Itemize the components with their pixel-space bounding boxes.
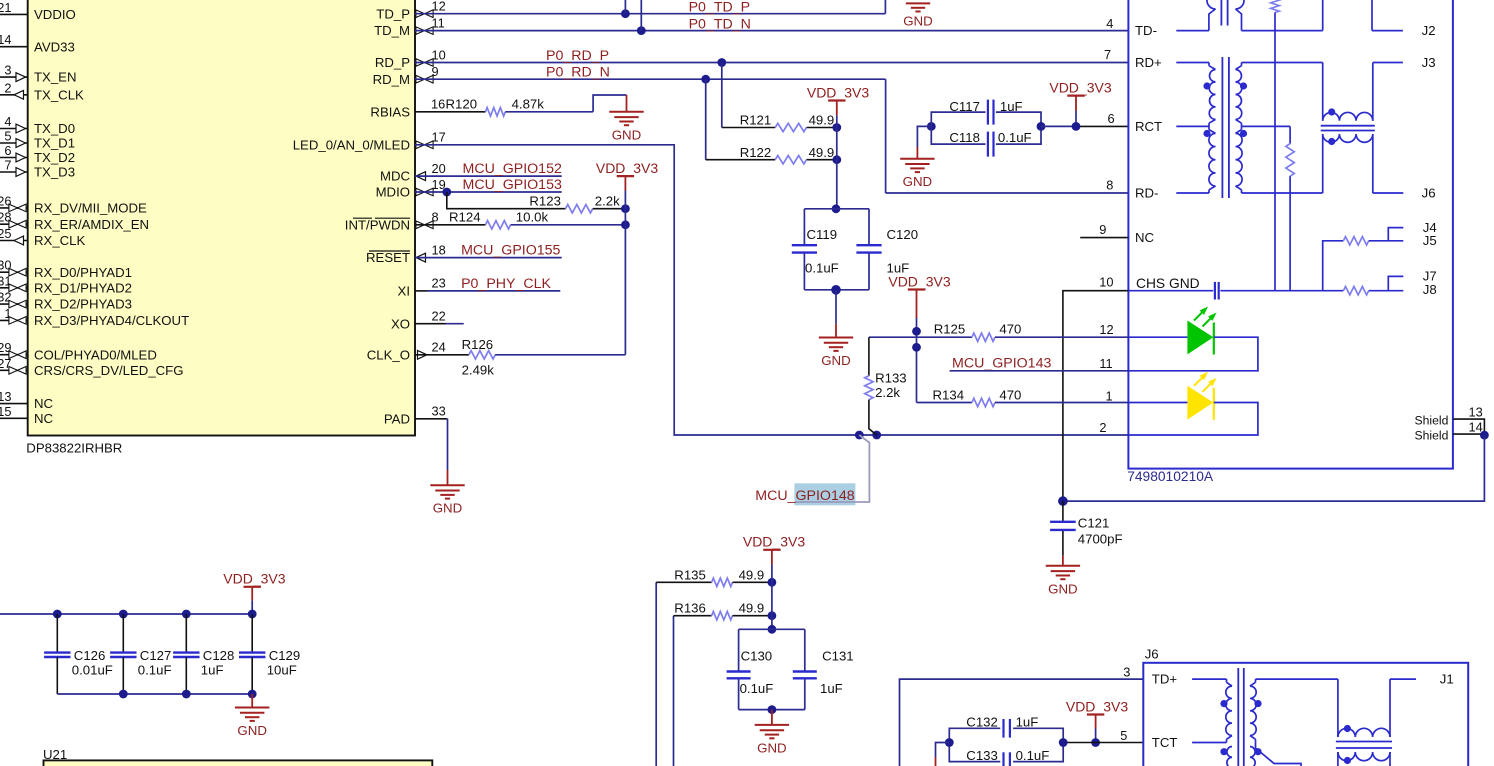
capacitor bank C117/C118 left node (927, 122, 936, 131)
svg-text:C128: C128 (203, 648, 235, 663)
svg-text:22: 22 (432, 309, 446, 324)
transformer J6 left winding upper (1226, 679, 1228, 682)
node MDIO junction (442, 188, 451, 197)
wire stem of RBIAS ground (626, 95, 628, 112)
IC left pin 29 COL/PHYAD0/MLED (0, 354, 28, 356)
svg-text:VDD_3V3: VDD_3V3 (888, 273, 950, 289)
svg-text:C127: C127 (140, 648, 172, 663)
wire stem C121 to ground (1062, 556, 1064, 566)
resistor R125 right lead to pin 12 (995, 336, 1128, 338)
svg-text:VDD_3V3: VDD_3V3 (807, 84, 869, 100)
svg-text:R126: R126 (462, 337, 494, 352)
svg-text:R136: R136 (674, 601, 706, 616)
IC left pin 4 TX_D0 (0, 128, 28, 130)
LED1 green diode (1188, 321, 1213, 353)
node top of C127 (119, 610, 128, 619)
svg-text:1: 1 (1106, 388, 1113, 403)
resistor R134 body (972, 398, 995, 406)
resistor to J4/J5 body (1343, 237, 1368, 245)
svg-text:RD_M: RD_M (373, 72, 410, 87)
wire VDD stem down (916, 290, 918, 319)
svg-text:P0_RD_P: P0_RD_P (546, 48, 609, 64)
phase dot RD left lower (1203, 130, 1210, 137)
svg-text:R134: R134 (933, 388, 965, 403)
svg-text:6: 6 (1108, 111, 1115, 126)
wire R135 left leg down (655, 582, 657, 766)
resistor R135 right lead (733, 581, 772, 583)
svg-text:RESET: RESET (366, 250, 410, 265)
magnetics pin 9 stub (1080, 237, 1128, 239)
svg-text:4: 4 (4, 114, 11, 129)
node P0_TD_P junction (621, 9, 630, 18)
svg-text:0.1uF: 0.1uF (998, 130, 1032, 145)
svg-text:10.0k: 10.0k (516, 210, 549, 225)
svg-text:8: 8 (1106, 177, 1113, 192)
svg-text:MCU_GPIO148: MCU_GPIO148 (755, 488, 854, 504)
LED1 emission arrows (1194, 313, 1202, 321)
wire right node to RCT pin 6 (1041, 125, 1076, 127)
wire VDD stem to TCT (1095, 715, 1097, 729)
resistor inside magnetics on RD centre rail (1289, 126, 1291, 143)
svg-text:C121: C121 (1078, 516, 1110, 531)
resistor R121 leads (722, 127, 775, 129)
LED2 yellow diode (1188, 387, 1213, 419)
capacitor C126 (56, 614, 58, 652)
svg-text:C133: C133 (966, 748, 998, 763)
node bottom C129 (248, 690, 257, 699)
wire pin 10 to C121 rail (1063, 291, 1129, 501)
resistor R133 body (865, 376, 873, 400)
wire RD+ inside to winding (1176, 62, 1209, 64)
wire rail down to C130 bank (771, 582, 773, 629)
wire LED1 anode inside (1128, 336, 1188, 338)
phase dot RD right lower (1240, 130, 1247, 137)
svg-text:R121: R121 (740, 113, 772, 128)
choke J6 bottom winding (cut) (1338, 752, 1390, 761)
wire J7 bracket (1388, 276, 1403, 290)
wire P0_TD_P from pin 12 (415, 13, 885, 15)
svg-text:21: 21 (0, 0, 12, 15)
wire VDD rail to left edge (0, 613, 252, 615)
svg-text:J2: J2 (1422, 23, 1436, 38)
wire VDD stem (771, 550, 773, 565)
transformer RD left winding upper (1208, 63, 1210, 66)
resistor R136 lead (674, 615, 712, 617)
cap bank C130/C131 top node (768, 625, 777, 634)
resistor R135 body (712, 578, 733, 586)
magnetics module 7498010210A body (1128, 0, 1453, 469)
wire RD- inside to winding (1176, 192, 1209, 194)
svg-text:5: 5 (1120, 728, 1127, 743)
wire VDD stem to rail (251, 587, 253, 601)
svg-text:RX_D3/PHYAD4/CLKOUT: RX_D3/PHYAD4/CLKOUT (34, 313, 189, 328)
svg-text:18: 18 (432, 242, 446, 257)
node C121 top (1058, 496, 1068, 506)
node P0_RD_N junction (701, 75, 710, 84)
svg-text:MCU_GPIO152: MCU_GPIO152 (463, 161, 562, 177)
svg-text:U21: U21 (43, 747, 67, 762)
connector J6 (lower magnetics) body (1143, 663, 1468, 766)
wire shield down to C121 node (1063, 435, 1485, 501)
svg-text:RX_D2/PHYAD3: RX_D2/PHYAD3 (34, 297, 132, 312)
svg-text:XI: XI (398, 284, 410, 299)
wire to J1 (1390, 678, 1416, 680)
svg-text:7498010210A: 7498010210A (1127, 469, 1214, 484)
wire vertical from TD_P junction up (624, 0, 626, 14)
node VDD/TCT junction (1091, 738, 1100, 747)
wire TD centre-tap rail down to CHS GND line (1274, 13, 1276, 291)
wire MDIO branch down to R123 (447, 192, 566, 209)
svg-text:10uF: 10uF (267, 663, 297, 678)
capacitor C117 plates (987, 100, 989, 125)
wire left node elbow down (936, 743, 950, 758)
ground symbol below C121 (1046, 565, 1080, 567)
choke J6 left lead (1337, 679, 1339, 737)
svg-text:C117: C117 (949, 99, 980, 114)
capacitor C129 (251, 614, 253, 652)
svg-text:R122: R122 (740, 145, 772, 160)
svg-text:XO: XO (391, 316, 410, 331)
cap bank bottom wire (739, 709, 805, 711)
svg-text:MCU_GPIO153: MCU_GPIO153 (463, 177, 562, 193)
capacitor C131 branch (804, 629, 806, 671)
choke J6 core lines (1336, 741, 1392, 743)
svg-text:RX_D0/PHYAD1: RX_D0/PHYAD1 (34, 265, 132, 280)
svg-text:RX_ER/AMDIX_EN: RX_ER/AMDIX_EN (34, 217, 149, 232)
ground symbol below C126-C129 (235, 707, 269, 709)
svg-text:2.49k: 2.49k (462, 362, 495, 377)
svg-text:P0_TD_P: P0_TD_P (689, 0, 751, 16)
wire R136 left leg down (673, 616, 675, 766)
svg-text:C131: C131 (822, 649, 854, 664)
svg-text:VDD_3V3: VDD_3V3 (1049, 79, 1111, 95)
IC left pin 27 CRS/CRS_DV/LED_CFG (0, 369, 28, 371)
svg-text:RCT: RCT (1135, 119, 1162, 134)
IC left pin 32 RX_D2/PHYAD3 (0, 303, 28, 305)
wire RD secondary bottom to CMC (1242, 192, 1323, 194)
resistor to J7/J8 body (1343, 287, 1368, 295)
wire shield pins tie (1453, 419, 1485, 434)
IC left pin 15 NC (0, 417, 28, 419)
cap bank right node (1037, 122, 1046, 131)
resistor R121 body (775, 123, 806, 131)
svg-text:CHS GND: CHS GND (1136, 276, 1200, 291)
choke J6 top winding (1338, 728, 1390, 737)
capacitor C130 branch (738, 629, 740, 671)
wire VDD_3V3 stem to R121 node (836, 101, 838, 116)
svg-text:VDD_3V3: VDD_3V3 (1066, 698, 1128, 714)
node VDD/R125 upper (912, 327, 921, 336)
choke RD top winding (1322, 63, 1324, 121)
transformer J6 right winding lower (cut) (1250, 747, 1255, 766)
node VDD/RCT junction (1072, 122, 1081, 131)
svg-text:20: 20 (432, 161, 446, 176)
svg-text:33: 33 (432, 404, 446, 419)
wire J5 (1369, 240, 1404, 242)
svg-text:RBIAS: RBIAS (370, 104, 410, 119)
IC left pin 28 RX_ER/AMDIX_EN (0, 223, 28, 225)
svg-text:VDD_3V3: VDD_3V3 (223, 571, 285, 587)
wire R134 row (magnetics pin 1) (917, 402, 972, 404)
svg-text:13: 13 (1469, 405, 1483, 420)
wire XI pin 23 (415, 290, 428, 292)
svg-text:NC: NC (1135, 230, 1155, 245)
resistor R133 bottom lead (869, 400, 877, 435)
svg-text:P0_PHY_CLK: P0_PHY_CLK (461, 276, 551, 292)
svg-text:23: 23 (432, 276, 446, 291)
svg-text:GND: GND (433, 501, 463, 516)
cap bank bottom wire (804, 289, 869, 291)
svg-text:TD+: TD+ (1152, 672, 1178, 687)
choke TD right lead (cut) (1371, 0, 1373, 31)
IC left pin 31 RX_D1/PHYAD2 (0, 287, 28, 289)
svg-text:10: 10 (1099, 274, 1113, 289)
svg-text:2: 2 (1099, 420, 1106, 435)
transformer J6 left winding lower (cut) (1227, 747, 1232, 766)
wire J6 right winding centre tap elbow (1256, 743, 1302, 766)
wire VDD stem to RCT wire (1075, 96, 1077, 111)
highlight box on net MCU_GPIO148 (794, 483, 855, 505)
IC left pin 26 RX_DV/MII_MODE (0, 207, 28, 209)
resistor R124 body (486, 221, 511, 229)
svg-text:GND: GND (237, 723, 267, 738)
resistor R133 top lead (868, 337, 870, 376)
wire R121 branch down from RD_P (721, 63, 723, 128)
phase dot RD right upper (1240, 82, 1247, 89)
svg-text:MDC: MDC (380, 169, 411, 184)
wire TD+ inside to winding (1192, 678, 1226, 680)
svg-text:R124: R124 (449, 210, 481, 225)
wire RD centre rail down to CHS GND line (1289, 176, 1291, 291)
capacitor C127 (122, 614, 124, 652)
wire to J3 (1373, 62, 1403, 64)
IC left pin 7 TX_D3 (0, 171, 28, 173)
svg-text:Shield: Shield (1415, 428, 1449, 442)
node bottom C127 (119, 690, 128, 699)
svg-text:C132: C132 (966, 714, 998, 729)
svg-text:J8: J8 (1423, 282, 1437, 297)
svg-text:6: 6 (4, 143, 11, 158)
wire to J2 (1372, 30, 1403, 32)
resistor R122 body (775, 156, 806, 164)
transformer TD left winding tail (1207, 0, 1216, 9)
wire stem to ground below bank (251, 694, 253, 708)
wire TCT row to lower magnetics pin 5 (1063, 742, 1144, 744)
capacitor C128 (185, 614, 187, 652)
wire MDC pin 20 (415, 175, 562, 177)
resistor R126 right lead to VDD rail (495, 354, 625, 356)
wire J4 bracket (1388, 228, 1403, 241)
svg-text:P0_RD_N: P0_RD_N (546, 64, 610, 80)
svg-text:NC: NC (34, 396, 54, 411)
svg-text:GND: GND (1048, 581, 1078, 596)
phase dot J6 right lower (1254, 748, 1261, 755)
wire MDIO pin 19 (415, 191, 562, 193)
svg-text:TX_EN: TX_EN (34, 70, 77, 85)
wire RESET pin 18 (415, 257, 562, 259)
svg-text:GND: GND (821, 353, 851, 368)
svg-text:0.01uF: 0.01uF (72, 663, 113, 678)
capacitor C118 plates (987, 132, 989, 157)
svg-text:1uF: 1uF (201, 663, 224, 678)
node R124 to VDD rail (621, 220, 630, 229)
IC U? DP83822IRHBR body (28, 0, 415, 436)
IC left pin 5 TX_D1 (0, 142, 28, 144)
wire CLK_O pin 24 lead (415, 354, 469, 356)
svg-text:12: 12 (1099, 322, 1113, 337)
svg-text:4700pF: 4700pF (1078, 532, 1123, 547)
svg-text:15: 15 (0, 404, 12, 419)
svg-text:TD-: TD- (1135, 23, 1157, 38)
capacitor C119 left branch (803, 209, 805, 245)
svg-text:11: 11 (1099, 356, 1112, 371)
resistor R136 body (712, 612, 733, 620)
svg-text:R120: R120 (446, 97, 478, 112)
wire RD_N vertical down at x=885.6 (885, 79, 887, 193)
wire LED_0 pin 17 long run (415, 145, 1128, 435)
node LED_0 run dot B (872, 431, 881, 440)
node bottom C128 (182, 690, 191, 699)
phase dot choke J6 top (1344, 725, 1351, 732)
svg-text:24: 24 (432, 340, 446, 355)
transformer TD right winding tail (1236, 0, 1245, 9)
svg-text:DP83822IRHBR: DP83822IRHBR (26, 441, 122, 456)
resistor R120 right lead (505, 111, 593, 113)
svg-text:AVD33: AVD33 (34, 39, 75, 54)
capacitor C121 leads (1062, 501, 1064, 522)
wire TCT inside to winding (1192, 742, 1226, 744)
transformer TD core lines (cut) (1220, 0, 1222, 26)
svg-text:14: 14 (0, 32, 12, 47)
wire left node to ground elbow (917, 126, 931, 147)
svg-text:RD+: RD+ (1135, 55, 1162, 70)
choke J6 right lead to J1 (1389, 679, 1391, 737)
capacitor C120 right branch (868, 209, 870, 245)
wire LED2 anode inside (1128, 402, 1188, 404)
svg-text:9: 9 (1099, 222, 1106, 237)
svg-text:TCT: TCT (1152, 735, 1178, 750)
svg-text:R125: R125 (934, 322, 966, 337)
phase dot choke J6 bottom (1344, 757, 1351, 764)
cap bank top wire (804, 208, 869, 210)
svg-text:TX_D3: TX_D3 (34, 165, 75, 180)
svg-text:LED_0/AN_0/MLED: LED_0/AN_0/MLED (293, 137, 410, 152)
svg-text:2.2k: 2.2k (875, 385, 900, 400)
wire stem to GND below C119/C120 (835, 290, 837, 324)
LED2 emission arrows (1194, 378, 1202, 386)
svg-text:C118: C118 (949, 130, 980, 145)
IC left pin 1 RX_D3/PHYAD4/CLKOUT (0, 319, 28, 321)
wire stem to ground (771, 710, 773, 725)
capacitor bank C119/C120 top node (832, 204, 841, 213)
svg-text:J3: J3 (1422, 55, 1436, 70)
svg-text:P0_TD_N: P0_TD_N (689, 16, 751, 32)
svg-text:GND: GND (903, 174, 933, 189)
resistor R124 right lead (511, 224, 626, 226)
resistor R126 body (469, 351, 495, 359)
node P0_TD_N junction (637, 26, 646, 35)
svg-text:C130: C130 (741, 649, 773, 664)
svg-text:3: 3 (1123, 664, 1130, 679)
node R121/VDD junction (832, 123, 841, 132)
svg-text:J6: J6 (1422, 186, 1436, 201)
svg-text:TD_P: TD_P (376, 6, 410, 21)
svg-text:0.1uF: 0.1uF (138, 663, 172, 678)
choke RD core lines (1321, 125, 1375, 127)
ground symbol for RBIAS (609, 111, 643, 113)
ground symbol below C117/C118 (900, 158, 934, 160)
svg-text:J5: J5 (1423, 233, 1437, 248)
svg-text:C120: C120 (887, 227, 919, 242)
node R135/VDD (768, 578, 777, 587)
node R123 to VDD rail (621, 204, 630, 213)
wire RD_N to magnetics pin 8 (886, 192, 1129, 194)
node top of C128 (182, 610, 191, 619)
phase dot J6 left lower (1220, 748, 1227, 755)
svg-text:470: 470 (999, 388, 1021, 403)
resistor R123 right lead (593, 208, 626, 210)
transformer RD right winding lower (1241, 126, 1243, 129)
phase dot J6 left upper (1220, 700, 1227, 707)
node LED_0 run dot A (855, 431, 864, 440)
cap bank C118 bottom branch (931, 126, 985, 144)
resistor R122 leads (706, 159, 776, 161)
svg-text:GND: GND (757, 740, 787, 755)
wire TD+ net to lower magnetics pin 3 (900, 679, 1144, 766)
svg-text:5: 5 (4, 129, 11, 144)
node R122 junction (832, 155, 841, 164)
svg-text:R133: R133 (875, 370, 907, 385)
cap bank bottom node (768, 705, 777, 714)
svg-text:CRS/CRS_DV/LED_CFG: CRS/CRS_DV/LED_CFG (34, 363, 184, 378)
node top of C129 (248, 610, 257, 619)
wire TD_P turn up at x=885 (884, 0, 886, 14)
ground symbol below PAD (430, 484, 464, 486)
choke J6 bottom leads (cut) (1337, 752, 1339, 766)
svg-text:4: 4 (1106, 16, 1113, 31)
svg-text:CLK_O: CLK_O (367, 347, 410, 362)
ground symbol below C130/C131 (755, 724, 789, 726)
svg-text:14: 14 (1469, 420, 1483, 435)
resistor R135 lead (656, 581, 711, 583)
svg-text:RX_CLK: RX_CLK (34, 233, 86, 248)
svg-text:J1: J1 (1440, 672, 1454, 687)
transformer RD left winding lower (1208, 126, 1210, 129)
svg-text:RD-: RD- (1135, 186, 1158, 201)
resistor R120 body (486, 108, 506, 116)
phase dot choke RD bottom (1328, 138, 1335, 145)
svg-text:TX_D2: TX_D2 (34, 150, 75, 165)
svg-text:C129: C129 (269, 648, 301, 663)
IC left pin 3 TX_EN (0, 76, 28, 78)
wire RBIAS up-jog to GND (593, 95, 626, 112)
cap bank bottom node (831, 285, 841, 295)
svg-text:R123: R123 (529, 193, 561, 208)
wire P0_TD_N from pin 11 to magnetics pin 4 (415, 30, 1128, 32)
wire P0_RD_P from pin 10 to magnetics pin 7 (415, 62, 1129, 64)
IC U21 body (cut at bottom) (44, 760, 433, 766)
wire J8 (1369, 290, 1404, 292)
svg-text:1uF: 1uF (1000, 99, 1023, 114)
transformer J6 right winding upper (1255, 679, 1257, 682)
svg-text:0.1uF: 0.1uF (740, 681, 774, 696)
cap bank C133 bottom branch (949, 743, 1000, 762)
choke TD left lead (cut) (1322, 0, 1324, 31)
resistor inside magnetics on TD centre rail (cut) (1271, 0, 1279, 13)
wire LED2 cathode loop (1128, 403, 1258, 436)
wire PAD pin 33 to ground (415, 418, 448, 420)
svg-text:RX_DV/MII_MODE: RX_DV/MII_MODE (34, 201, 147, 216)
